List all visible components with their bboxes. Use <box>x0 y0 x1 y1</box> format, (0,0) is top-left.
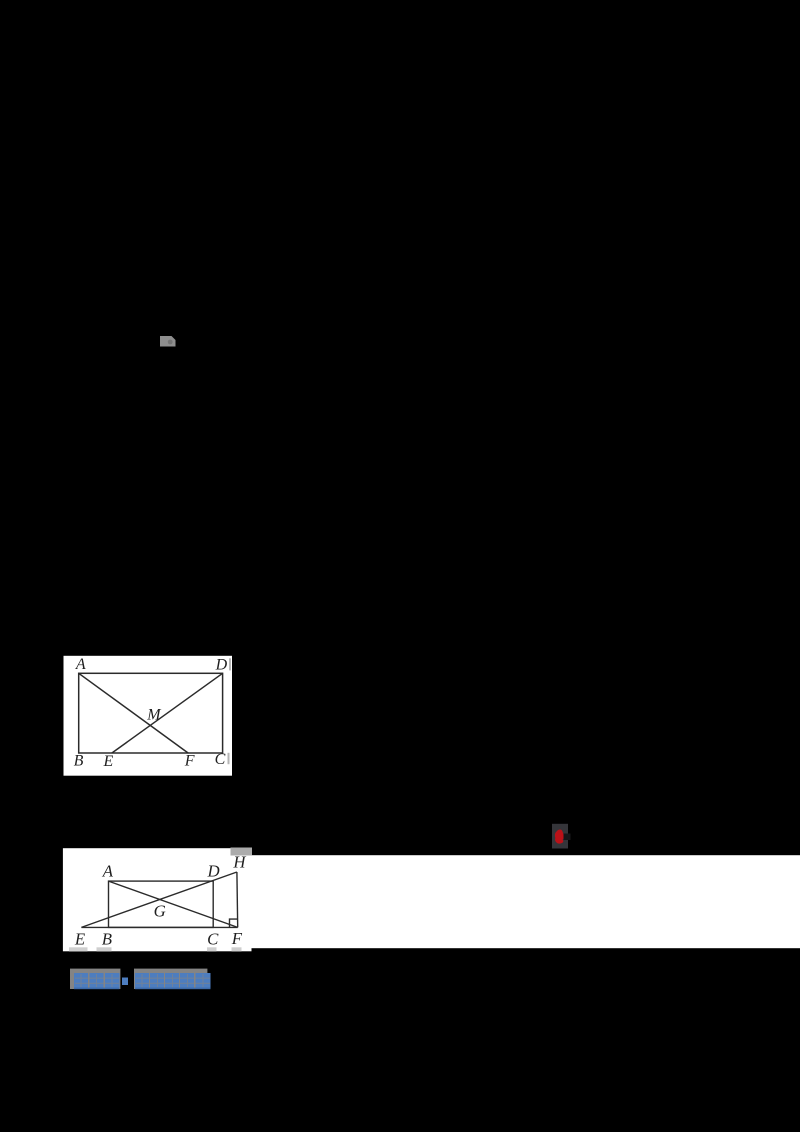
red character with dark shading box <box>552 824 571 849</box>
svg-text:B: B <box>74 753 84 770</box>
svg-text:E: E <box>103 753 114 770</box>
line A to F <box>79 673 188 753</box>
figure 1 drawing <box>79 673 223 753</box>
svg-text:E: E <box>74 930 85 949</box>
cursor bar near D <box>229 658 231 670</box>
line H to F <box>236 872 239 927</box>
blue hyperlink text group 2 (5 chars) <box>135 973 211 988</box>
svg-text:C: C <box>207 929 219 948</box>
baseline E to F <box>81 926 237 928</box>
svg-text:M: M <box>146 707 162 724</box>
figure 2 drawing <box>81 872 237 927</box>
svg-text:H: H <box>232 852 246 871</box>
svg-text:D: D <box>207 862 220 881</box>
svg-text:G: G <box>154 902 166 921</box>
rectangle ABCD <box>109 881 214 927</box>
cursor bar near C <box>228 753 230 764</box>
svg-text:A: A <box>75 656 86 673</box>
line E to H <box>81 872 237 927</box>
gray marks below figure 2 labels <box>69 947 242 951</box>
white band (empty table cell) right of figure 2 <box>251 855 800 948</box>
figure 1 labels <box>74 656 228 770</box>
line A to F <box>109 881 238 927</box>
svg-text:B: B <box>102 930 112 949</box>
figure 2 white image background <box>63 848 252 951</box>
line D to E <box>112 673 223 753</box>
svg-text:D: D <box>215 656 228 673</box>
svg-text:F: F <box>184 752 195 769</box>
rectangle ABCD <box>79 673 223 753</box>
gray patch top-right of figure 2 <box>231 848 253 856</box>
figure 1 white image background <box>64 656 233 776</box>
small gray formula icon <box>160 336 176 347</box>
svg-text:F: F <box>231 929 243 948</box>
svg-text:C: C <box>215 751 226 768</box>
blue hyperlink text group 1 (3 chars) <box>74 973 128 988</box>
gray field-shading box 2 <box>134 969 207 989</box>
underline of hyperlink <box>74 988 120 990</box>
svg-text:A: A <box>102 862 114 881</box>
small blue mark (colon) <box>122 978 128 986</box>
figure 2 labels <box>74 852 247 948</box>
gray field-shading box 1 <box>70 969 120 989</box>
texture slits in blue text <box>75 974 210 987</box>
right angle mark at F <box>230 919 238 927</box>
